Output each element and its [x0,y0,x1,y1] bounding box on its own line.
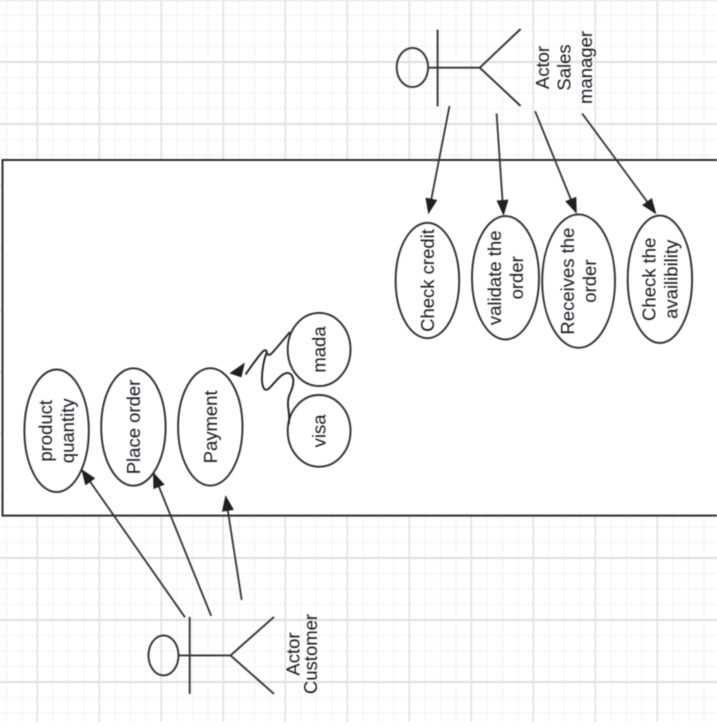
use case: product quantity [24,370,88,493]
svg-text:order: order [579,259,600,302]
use case: Receives the order [542,214,615,347]
use case: Check the availibility [628,216,692,343]
use case: mada [288,313,351,386]
use case: visa [288,395,351,467]
svg-text:Place order: Place order [123,380,144,475]
arrow: Customer -> product quantity [82,470,185,617]
label: Actor Customer [283,614,322,694]
svg-text:Check credit: Check credit [417,229,438,332]
svg-text:Check the: Check the [638,238,659,321]
svg-text:Customer: Customer [300,614,321,694]
arrow: Sales manager -> Receives the order [535,111,576,212]
svg-text:mada: mada [309,326,330,373]
use case: Place order [101,368,165,485]
svg-text:product: product [35,400,56,462]
use case: Payment [178,368,242,485]
svg-text:quantity: quantity [57,398,78,464]
svg-text:Receives the: Receives the [557,228,578,335]
svg-text:validate the: validate the [484,230,505,325]
label: Actor Sales manager [532,31,596,104]
svg-text:manager: manager [575,31,596,104]
arrow: Sales manager -> Check credit [426,106,449,213]
svg-text:visa: visa [309,414,330,448]
arrow: Sales manager -> Check the availibility [582,114,656,214]
arrow: Customer -> Place order [154,473,212,616]
actor: Sales manager (stick figure) [397,29,521,106]
svg-text:availibility: availibility [660,239,681,319]
freehand connector arrowhead at Payment [231,364,245,377]
use case: validate the order [472,216,539,339]
svg-text:Sales: Sales [554,44,575,90]
svg-text:order: order [506,256,527,299]
svg-text:Actor: Actor [532,46,553,89]
actor: Customer (stick figure) [149,617,275,694]
use case: Check credit [396,223,460,338]
system boundary rectangle [3,160,717,516]
arrow: Sales manager -> validate the order [497,114,508,215]
svg-text:Payment: Payment [200,390,221,463]
arrow: Customer -> Payment [223,497,242,600]
freehand connector: mada/visa -> Payment (squiggle stroke) [246,332,294,424]
